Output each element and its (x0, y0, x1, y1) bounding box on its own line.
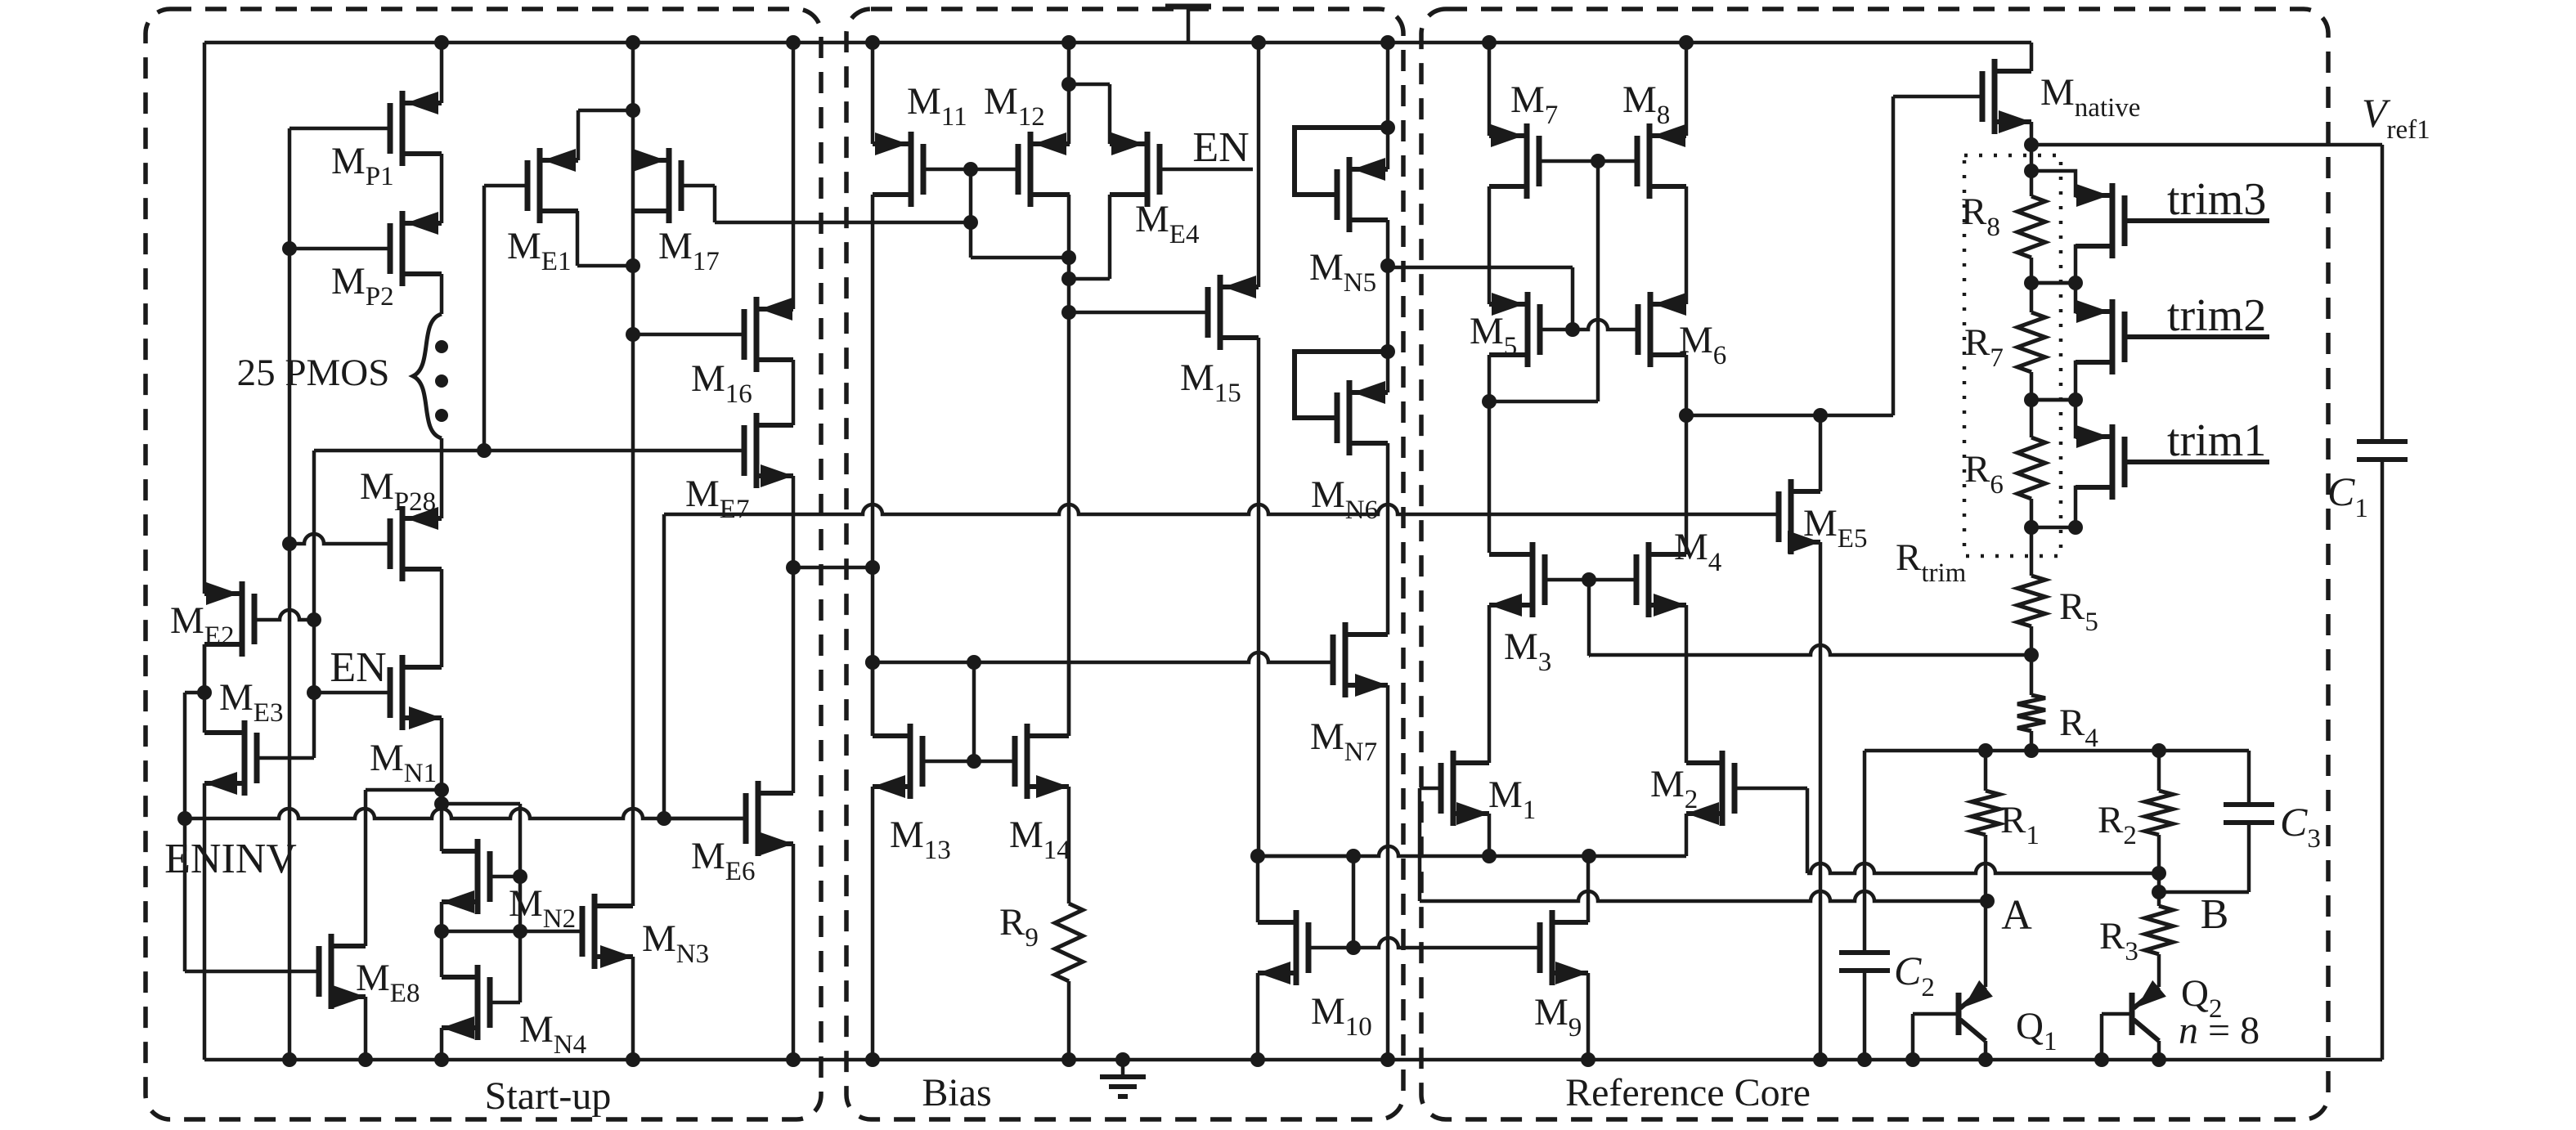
wire R1 bottom to A (1984, 835, 1988, 901)
node dot M15 gate branch (1061, 305, 1076, 320)
node dot M_P28 gate (282, 536, 297, 551)
wire R3 to Q2 (2157, 954, 2161, 987)
node dot M_E5 source at rail (1813, 1052, 1828, 1067)
transistor M_13 (908, 724, 913, 799)
wire M_P1 source to M_P2 drain (440, 154, 444, 223)
node dot junction row 0 (2024, 276, 2039, 290)
wire MN6 source down (1386, 443, 1390, 635)
transistor M_17 (666, 148, 672, 223)
node dot M11 at rail (865, 35, 880, 50)
transistor M_E2 (240, 581, 245, 657)
node dot MN7 source at rail (1380, 1052, 1395, 1067)
wire trim1 source (2031, 487, 2112, 527)
wire M11 drain to rail (871, 43, 875, 144)
node dot M13 source at rail (865, 1052, 880, 1067)
B bus (1807, 863, 2159, 873)
wire C3 to B node (2247, 823, 2251, 892)
node dot M_N1 source branch2 (434, 796, 449, 811)
wire trim branch trim3 drain (2031, 171, 2112, 195)
gate bus vertical M_P1..M_P28 (288, 128, 292, 1060)
node dot junction row 2 (2024, 520, 2039, 535)
wire M_P2 source down to brace (440, 274, 444, 314)
wire node to R4 (2030, 655, 2034, 695)
node dot M1 source at bias wire (1482, 849, 1497, 863)
wire M_P1 drain to VDD rail (440, 43, 444, 103)
wire gates to M17 wire (969, 169, 973, 222)
center vertical from VDD (631, 43, 635, 334)
svg-text:B: B (2201, 891, 2229, 938)
node dot EN at M_E2 gate (307, 612, 321, 627)
wire trim1 gate lead (2125, 460, 2269, 464)
wire M_N3 drain up (631, 334, 635, 906)
wire M_17 gate lead (681, 184, 715, 188)
wire M_E8 source to ground (364, 997, 368, 1060)
wire M_E8 drain up (364, 790, 368, 946)
wire y272 corner down to y315 (969, 222, 973, 258)
transistor M_7 (1524, 123, 1530, 199)
svg-text:trim3: trim3 (2167, 174, 2266, 225)
wire M12 source down (1067, 195, 1071, 258)
capacitor C2 (1839, 950, 1890, 955)
transistor Q2 (PNP) (2129, 993, 2135, 1035)
transistor Q1 (PNP) (1956, 993, 1962, 1035)
wire M2 gate (1735, 787, 1807, 791)
ground bottom rail (204, 1058, 2382, 1062)
node dot M3/M4 gates (1582, 572, 1596, 587)
wire M15 drain to rail (1257, 43, 1261, 287)
node dot M_P1 drain at rail (434, 35, 449, 50)
EN vertical bus (312, 451, 316, 758)
resistor R2 (2145, 791, 2173, 835)
wire M7/M8 gates down (1596, 161, 1600, 401)
wire M7 drain to rail (1488, 43, 1492, 136)
V_ref1 output wire (2031, 143, 2382, 147)
wire trim branch trim2 drain (2031, 283, 2112, 312)
svg-text:EN: EN (1192, 124, 1249, 171)
node dot R9 at rail (1061, 1052, 1076, 1067)
node dot gate bus at bottom rail (282, 1052, 297, 1067)
svg-text:Bias: Bias (922, 1071, 991, 1114)
vertical bus x1307 lower (1067, 258, 1071, 736)
wire M_N4 drain riser (440, 931, 444, 977)
Rtrim dotted box (1964, 155, 2061, 556)
node dot M10 drain node (1250, 849, 1265, 863)
node dot M10 source at rail (1250, 1052, 1265, 1067)
wire M_E6 gate lead (664, 817, 746, 821)
ENINV bus (185, 809, 746, 818)
node dot at M13 vertical (865, 560, 880, 575)
wire y802 to R5 bottom (1589, 645, 2031, 655)
transistor trim3 (2110, 183, 2116, 258)
M5 M6 gate bus (1540, 320, 1638, 330)
long enable wire to M_E5 gate (664, 504, 1779, 514)
capacitor C1 (2357, 439, 2408, 444)
node dot C2 at rail (1857, 1052, 1872, 1067)
node dot gate branch (1346, 849, 1361, 863)
wire M_E1 gate lead (484, 184, 527, 188)
wire M14 drain up (1067, 664, 1071, 736)
wire M_16 drain up (792, 43, 796, 309)
left rail segment (M_E3 source to ground) (203, 783, 207, 1060)
transistor M_E1 (537, 148, 543, 223)
wire M_N1 source down (440, 718, 444, 851)
transistor M_E4 (1145, 132, 1151, 207)
resistor R8 (2030, 171, 2034, 196)
capacitor C3 (2224, 802, 2274, 807)
wire M8 source down (1685, 186, 1689, 304)
wire M4 drain up (1685, 415, 1689, 554)
ellipsis dots of 25 PMOS chain (435, 340, 448, 353)
transistor trim1 (2110, 424, 2116, 500)
wire M_E7 source down (792, 476, 796, 567)
wire trim3 gate lead (2125, 218, 2269, 223)
wire MN5 drain to rail (1386, 43, 1390, 169)
node dot M7/M8 gates (1591, 154, 1605, 168)
svg-text:A: A (2001, 892, 2032, 939)
left rail segment (VDD down left side) (203, 43, 207, 594)
wire M9 drain up (1586, 856, 1591, 922)
wire M6 node to M_E5 drain (1686, 414, 1820, 418)
wire R2 top (2157, 751, 2161, 791)
wire M11 source down (871, 195, 875, 736)
transistor M_N4 (475, 965, 481, 1040)
node dot M_N3 source at rail (626, 1052, 640, 1067)
wire MN5 source down (1386, 220, 1390, 392)
25 PMOS brace (413, 314, 442, 438)
wire M_E5 drain up (1819, 415, 1823, 491)
resistor R3 (2145, 906, 2173, 954)
node dot MN5 at rail (1380, 35, 1395, 50)
node dot M_E6 source at rail (786, 1052, 801, 1067)
node dot x1307 at rail (1061, 35, 1076, 50)
wire M_N4 gate lead (490, 1001, 520, 1005)
wire M8 drain to rail (1685, 43, 1689, 136)
wire branch to M13/M14 gates (972, 662, 976, 761)
node dot M7 at rail (1482, 35, 1497, 50)
node dot M_P2 gate (282, 241, 297, 256)
wire M_N4 source to ground (440, 1028, 444, 1060)
node dot M11/M12 gates (963, 162, 978, 177)
transistor M_N6 (1347, 380, 1353, 455)
wire R1 top (1984, 751, 1988, 791)
wire M15 source down (1257, 338, 1261, 856)
transistor M_E3 (242, 720, 248, 796)
resistor R9 (1055, 904, 1083, 981)
transistor M_native (1992, 59, 1998, 134)
transistor M_11 (909, 132, 914, 207)
transistor M_3 (1530, 542, 1536, 617)
node dot M13/M14 gates (967, 754, 981, 769)
node dot center vertical at rail (626, 35, 640, 50)
transistor M_E6 (756, 781, 761, 856)
wire M3 source down (1488, 605, 1492, 763)
transistor M_12 (1028, 132, 1034, 207)
wire to M_N3/M_N4 gates (442, 802, 520, 806)
wire M15 gate lead (1069, 311, 1208, 315)
node dot M13/M14 gate branch (967, 655, 981, 670)
wire ENINV to M_E8 gate (183, 818, 187, 971)
node dot M_E2/M_E3 junction (197, 685, 212, 700)
wire M_N1 gate lead (314, 691, 390, 695)
wire M_E4 source down (1108, 195, 1112, 279)
MN6 gate loop (1295, 352, 1388, 418)
wire R5 to node (2030, 626, 2034, 655)
node dot B lower (2152, 885, 2166, 899)
wire M_E6 source to ground (792, 844, 796, 1060)
wire trim2 source (2031, 362, 2112, 400)
Bias section dashed box (846, 9, 1403, 1119)
wire branch to Bias (793, 566, 873, 570)
wire M_N2 source down (440, 902, 444, 931)
resistor R1 (1972, 791, 1999, 835)
node dot M_E1 source (626, 258, 640, 273)
transistor M_14 (1025, 724, 1030, 799)
wire M_E2 gate lead with hop (254, 610, 314, 620)
wire to M_E4 drain (1069, 83, 1110, 87)
node dot Vref1 (2024, 137, 2039, 152)
capacitor C1 bottom wire (2381, 460, 2385, 1060)
transistor M_6 (1648, 292, 1654, 367)
wire MN7 gate bus (873, 652, 1333, 662)
vertical bus x1307 upper (1067, 43, 1071, 144)
node dot EN at M_N1 gate (307, 685, 321, 700)
node dot R2 top (2152, 743, 2166, 758)
node dot Q2 base at rail (2094, 1052, 2109, 1067)
node dot M_E7 source branch (786, 560, 801, 575)
node dot M_N2 source (434, 924, 449, 939)
R1 R2 R4 node bus (1865, 749, 2249, 753)
M13 M14 gate bus (922, 760, 1015, 764)
wire M14 source to R9 (1067, 787, 1071, 904)
wire M_E1 source arm (540, 209, 577, 213)
left rail segment (M_E2 source to M_E3 drain) (203, 644, 207, 733)
wire R2 bottom to B (2157, 835, 2161, 906)
wire trim3 source (2031, 246, 2112, 283)
transistor trim2 (2110, 299, 2116, 374)
wire M_E2 source down (203, 644, 207, 693)
wire M_E6 drain up (792, 567, 796, 793)
node dot M_E4 source node (1061, 271, 1076, 286)
transistor M_E5 (1788, 479, 1794, 554)
wire M_E3 gate lead (257, 756, 314, 760)
node dot x1307 ME4 branch (1061, 77, 1076, 92)
wire MN5 to M5/M6 gates (1388, 266, 1573, 270)
wire junction to ENINV vertical (185, 691, 204, 695)
node dot M6 source node (1679, 408, 1694, 423)
wire M_N2 gate lead (490, 875, 520, 879)
wire M7 source down (1488, 186, 1492, 304)
MN5 gate loop (1295, 128, 1388, 195)
node dot R4 bottom (2024, 743, 2039, 758)
transistor M_N5 (1347, 157, 1353, 232)
node dot MN6 gate loop (1380, 344, 1395, 359)
node dot M8 at rail (1679, 35, 1694, 50)
wire M9 source to ground (1586, 973, 1591, 1060)
wire M10 drain up (1256, 856, 1260, 922)
transistor M_N3 (592, 894, 598, 969)
node dot at y272 wire (963, 215, 978, 230)
node dot M_N2 gate junction (513, 869, 527, 884)
wire Mnative source down (2030, 122, 2034, 171)
transistor M_10 (1294, 910, 1299, 985)
transistor M_9 (1550, 910, 1555, 985)
transistor M_4 (1646, 542, 1652, 617)
node dot M_N4 source at rail (434, 1052, 449, 1067)
wire M6 source down (1685, 355, 1689, 415)
node dot MN5 source branch (1380, 258, 1395, 273)
node dot M_16 drain at rail (786, 35, 801, 50)
node dot M_E1 drain (626, 103, 640, 118)
node dot M5/M6 gates (1565, 322, 1580, 337)
M3 M4 gate bus (1545, 578, 1636, 582)
node dot A (1980, 894, 1995, 908)
wire bus to C3 (2247, 751, 2251, 805)
transistor M_N7 (1343, 622, 1349, 697)
svg-text:trim2: trim2 (2167, 290, 2266, 341)
M11 M12 gate bus (923, 168, 1018, 172)
node dot M12 source node (1061, 250, 1076, 265)
bias wire y1047 (1258, 846, 1686, 856)
transistor M_N2 (475, 839, 481, 914)
wire A to Q1 (1984, 901, 1988, 987)
node dot R5 bottom (2024, 648, 2039, 662)
transistor M_P1 (400, 91, 406, 166)
node dot ENINV left (177, 811, 192, 826)
resistor R4 (2017, 695, 2045, 731)
VDD supply symbol (1165, 4, 1211, 10)
wire M_16 source to M_E7 drain (792, 360, 796, 425)
wire M13 source to ground (871, 787, 875, 1060)
node dot Q1 emitter at rail (1978, 1052, 1993, 1067)
transistor M_8 (1647, 123, 1653, 199)
node dot M15 at rail (1251, 35, 1266, 50)
wire M_E5 source to ground (1819, 542, 1823, 1060)
wire trim2 gate lead (2125, 334, 2269, 339)
svg-text:n = 8: n = 8 (2179, 1009, 2260, 1052)
wire M_P28 gate lead with hop (289, 534, 390, 544)
node dot on gate bus (1346, 940, 1361, 955)
node dot M_16 gate (626, 327, 640, 342)
wire bias node to gates (1258, 854, 1353, 859)
Start-up section dashed box (146, 9, 821, 1119)
wire MN7 source to ground (1386, 685, 1390, 1060)
wire M_E1 drain arm (540, 159, 578, 163)
wire M3/M4 gates to R4 node (1587, 580, 1591, 656)
resistor R6 (2030, 400, 2034, 437)
wire M10 source to ground (1256, 973, 1260, 1060)
node dot R1 top (1978, 743, 1993, 758)
ground symbol (1115, 1052, 1130, 1067)
node dot B upper (2152, 866, 2166, 881)
wire M2 source down (1685, 814, 1689, 856)
transistor M_P2 (400, 211, 406, 286)
wire Mnative drain to rail (2030, 43, 2034, 71)
wire M_P2 gate lead (289, 247, 390, 251)
wire M1 source down (1488, 814, 1492, 856)
wire brace to M_P28 drain (440, 438, 444, 518)
transistor M_16 (754, 297, 760, 372)
wire M13 drain up (871, 662, 875, 736)
wire M_P28 source to M_N1 drain (440, 569, 444, 667)
node dot M_E1 gate branch (477, 443, 491, 458)
node dot R8 top (2024, 164, 2039, 178)
transistor M_E7 (754, 413, 760, 488)
node dot M_N3 gate junction (513, 924, 527, 939)
transistor M_E8 (329, 934, 334, 1009)
wire M_N2 source to M_N3 gate (442, 930, 582, 934)
svg-text:trim1: trim1 (2167, 415, 2266, 466)
wire M_16 gate lead (633, 333, 744, 337)
wire branch down to gate bus (1352, 856, 1356, 948)
wire M_P1 gate to gate bus (289, 127, 390, 131)
transistor M_5 (1525, 292, 1531, 367)
node dot M_E8 source at rail (358, 1052, 373, 1067)
wire M5 source down (1488, 355, 1492, 553)
wire M_N3 source to ground (631, 957, 635, 1060)
wire R4 to bus (2030, 731, 2034, 751)
transistor M_P28 (400, 506, 406, 581)
M7 M8 gate bus (1539, 159, 1637, 164)
node dot M11/M13 at y810 (865, 655, 880, 670)
node dot M9 source at rail (1581, 1052, 1595, 1067)
node dot M_N1 source node (434, 782, 449, 797)
transistor M_N1 (400, 655, 406, 730)
transistor M_2 (1720, 751, 1726, 826)
wire M_E1 gate vertical (482, 186, 487, 451)
node dot ENINV at M_E6 gate branch (657, 811, 671, 826)
capacitor C1 top wire (2381, 145, 2385, 442)
node dot junction row 1 (2024, 392, 2039, 407)
wire M_E4 gate lead EN (1160, 168, 1253, 172)
A bus (1420, 891, 1987, 901)
wire R9 to ground (1067, 981, 1071, 1060)
M10 M9 gate bus (1308, 938, 1541, 948)
wire node to Mnative gate (1820, 414, 1893, 418)
VDD top rail (204, 41, 2031, 45)
resistor R7 (2030, 283, 2034, 312)
wire C2 to ground (1863, 971, 1867, 1060)
node dot Q2 emitter at rail (2152, 1052, 2166, 1067)
EN wire to M_E7 gate (314, 449, 743, 453)
svg-text:Start-up: Start-up (485, 1074, 612, 1118)
resistor R5 (2017, 576, 2045, 626)
wire Rtrim to R5 (2030, 527, 2034, 576)
wire M1 gate (1420, 787, 1441, 791)
node dot M_E5 drain node (1813, 408, 1828, 423)
transistor M_15 (1218, 275, 1223, 350)
wire ENINV riser to long enable wire (662, 514, 666, 818)
node dot Q1 base at rail (1905, 1052, 1920, 1067)
svg-text:Reference Core: Reference Core (1565, 1071, 1811, 1114)
node dot M9 drain node (1582, 849, 1596, 863)
wire bus to C2 (1863, 751, 1867, 953)
node dot MN5 gate loop (1380, 120, 1395, 135)
wire M4 source to M2 drain (1685, 605, 1689, 763)
node dot at M5 source (1482, 394, 1497, 409)
transistor M_1 (1451, 751, 1456, 826)
wire trim branch trim1 drain (2031, 400, 2112, 437)
Reference Core section dashed box (1421, 9, 2328, 1119)
node dot MN7 gate bus left (865, 655, 880, 670)
svg-text:25 PMOS: 25 PMOS (237, 352, 390, 394)
svg-text:EN: EN (330, 644, 386, 691)
